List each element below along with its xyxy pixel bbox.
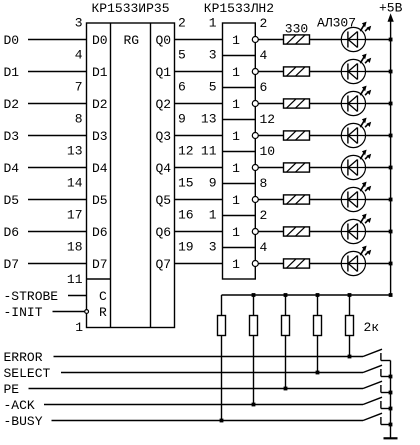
svg-text:Q1: Q1 xyxy=(156,65,172,80)
svg-text:3: 3 xyxy=(209,240,217,255)
svg-text:D5: D5 xyxy=(92,193,108,208)
svg-text:D2: D2 xyxy=(92,97,108,112)
svg-text:2: 2 xyxy=(178,16,186,31)
svg-text:+5В: +5В xyxy=(379,0,403,15)
svg-text:5: 5 xyxy=(178,48,186,63)
svg-text:11: 11 xyxy=(201,144,217,159)
svg-text:6: 6 xyxy=(260,80,268,95)
svg-text:5: 5 xyxy=(209,80,217,95)
svg-text:12: 12 xyxy=(260,112,276,127)
svg-text:7: 7 xyxy=(75,80,83,95)
svg-text:4: 4 xyxy=(75,48,83,63)
svg-text:Q6: Q6 xyxy=(156,225,172,240)
svg-text:11: 11 xyxy=(67,272,83,287)
svg-text:D6: D6 xyxy=(92,225,108,240)
svg-text:D0: D0 xyxy=(4,33,20,48)
svg-text:8: 8 xyxy=(260,176,268,191)
svg-text:6: 6 xyxy=(178,80,186,95)
svg-text:D3: D3 xyxy=(92,129,108,144)
svg-text:D1: D1 xyxy=(4,65,20,80)
svg-text:4: 4 xyxy=(260,240,268,255)
svg-text:16: 16 xyxy=(178,208,194,223)
svg-text:C: C xyxy=(99,289,107,304)
svg-text:1: 1 xyxy=(232,97,240,112)
svg-text:-ACK: -ACK xyxy=(4,398,35,413)
svg-text:Q5: Q5 xyxy=(156,193,172,208)
svg-text:D2: D2 xyxy=(4,97,20,112)
svg-text:D7: D7 xyxy=(92,257,108,272)
svg-text:D1: D1 xyxy=(92,65,108,80)
svg-text:1: 1 xyxy=(232,193,240,208)
svg-text:4: 4 xyxy=(260,48,268,63)
svg-text:Q4: Q4 xyxy=(156,161,172,176)
svg-text:19: 19 xyxy=(178,240,194,255)
svg-text:1: 1 xyxy=(232,65,240,80)
svg-text:-BUSY: -BUSY xyxy=(4,414,43,429)
svg-text:1: 1 xyxy=(209,208,217,223)
svg-text:17: 17 xyxy=(67,208,83,223)
svg-text:10: 10 xyxy=(260,144,276,159)
svg-text:13: 13 xyxy=(67,144,83,159)
svg-text:330: 330 xyxy=(285,21,308,36)
svg-text:КР1533ЛН2: КР1533ЛН2 xyxy=(204,1,274,16)
svg-text:Q3: Q3 xyxy=(156,129,172,144)
svg-text:D7: D7 xyxy=(4,257,20,272)
svg-text:15: 15 xyxy=(178,176,194,191)
svg-text:D6: D6 xyxy=(4,225,20,240)
svg-text:Q7: Q7 xyxy=(156,257,172,272)
svg-text:8: 8 xyxy=(75,112,83,127)
svg-text:ERROR: ERROR xyxy=(4,350,43,365)
svg-text:SELECT: SELECT xyxy=(4,366,51,381)
svg-text:-INIT: -INIT xyxy=(4,305,43,320)
svg-text:13: 13 xyxy=(201,112,217,127)
svg-text:1: 1 xyxy=(232,161,240,176)
svg-text:1: 1 xyxy=(75,320,83,335)
svg-text:D5: D5 xyxy=(4,193,20,208)
svg-text:PE: PE xyxy=(4,382,20,397)
svg-text:D4: D4 xyxy=(4,161,20,176)
svg-text:1: 1 xyxy=(232,129,240,144)
svg-text:2: 2 xyxy=(260,208,268,223)
svg-text:D4: D4 xyxy=(92,161,108,176)
svg-text:RG: RG xyxy=(124,33,140,48)
svg-text:КР1533ИР35: КР1533ИР35 xyxy=(91,1,169,16)
svg-text:9: 9 xyxy=(209,176,217,191)
svg-text:R: R xyxy=(99,305,107,320)
svg-text:-STROBE: -STROBE xyxy=(4,289,59,304)
svg-text:9: 9 xyxy=(178,112,186,127)
svg-text:1: 1 xyxy=(232,225,240,240)
svg-text:D0: D0 xyxy=(92,33,108,48)
svg-text:3: 3 xyxy=(75,16,83,31)
svg-text:Q0: Q0 xyxy=(156,33,172,48)
svg-text:Q2: Q2 xyxy=(156,97,172,112)
svg-text:1: 1 xyxy=(232,257,240,272)
svg-text:D3: D3 xyxy=(4,129,20,144)
svg-text:1: 1 xyxy=(232,33,240,48)
svg-text:3: 3 xyxy=(209,48,217,63)
svg-text:1: 1 xyxy=(209,16,217,31)
svg-text:12: 12 xyxy=(178,144,194,159)
svg-text:2: 2 xyxy=(260,16,268,31)
svg-text:2к: 2к xyxy=(364,320,380,335)
svg-text:18: 18 xyxy=(67,240,83,255)
svg-text:14: 14 xyxy=(67,176,83,191)
